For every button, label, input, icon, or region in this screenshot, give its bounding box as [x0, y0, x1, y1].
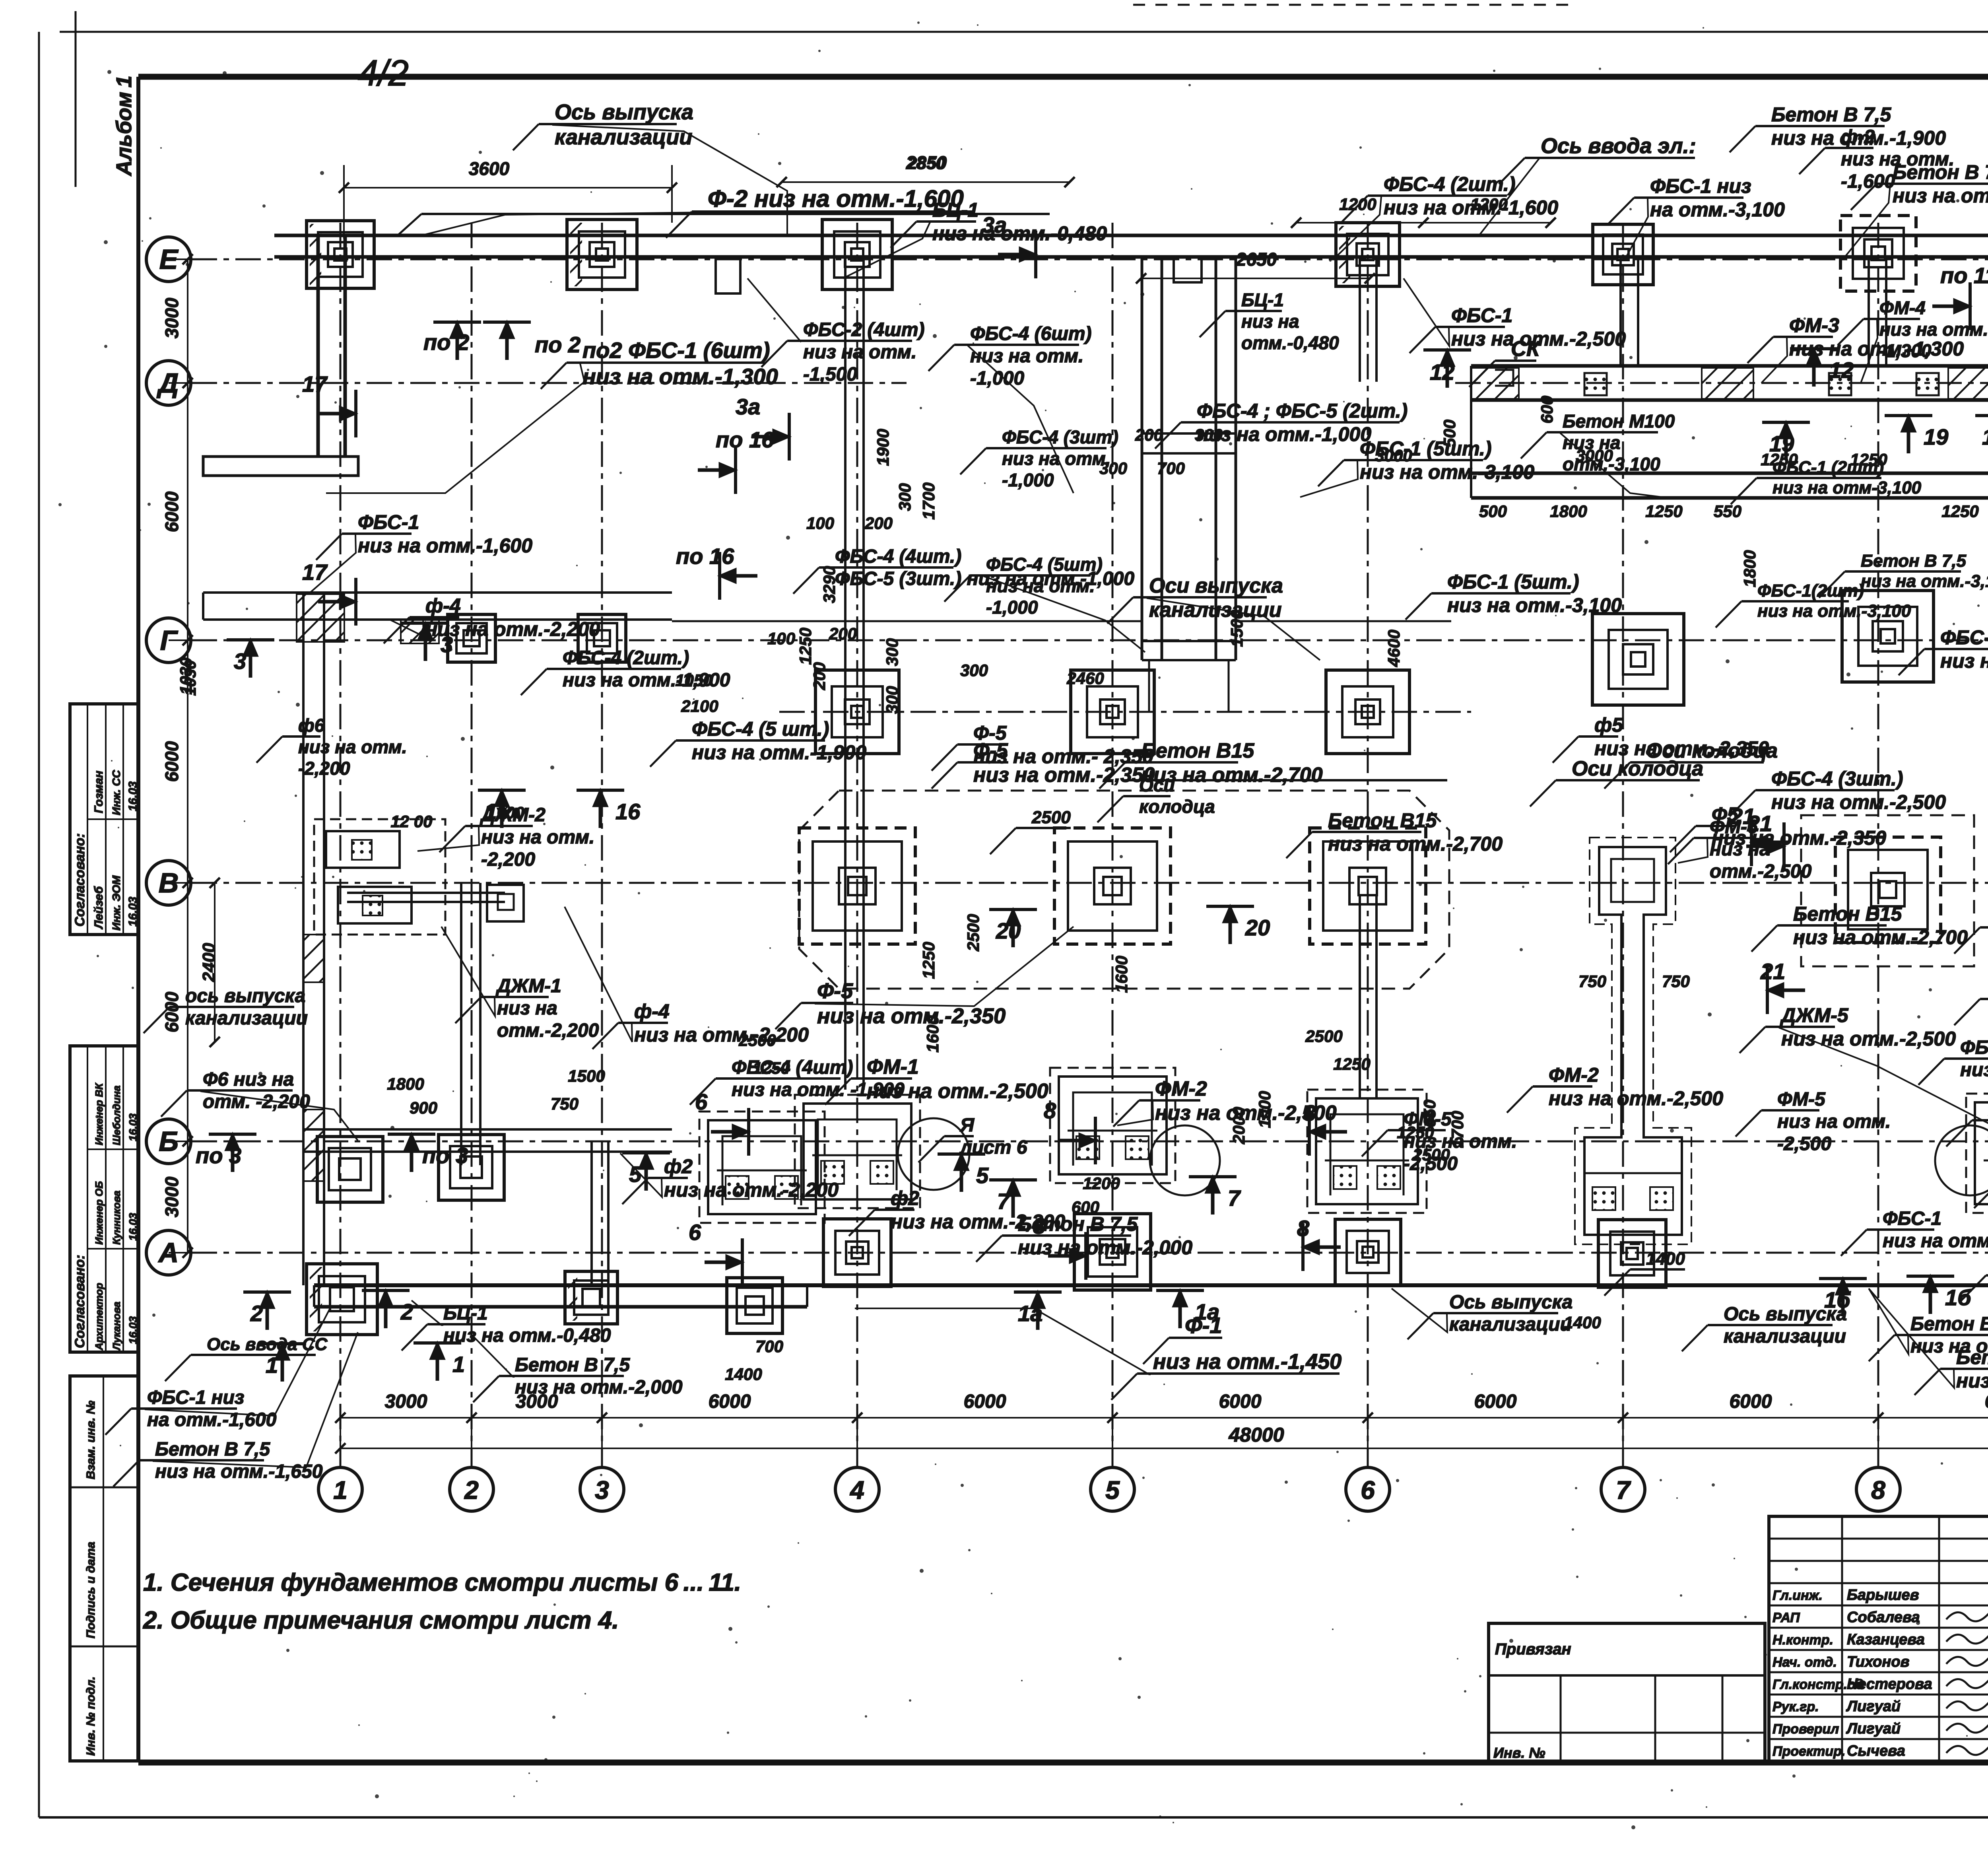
svg-text:1200: 1200 [487, 803, 524, 822]
svg-text:Н.контр.: Н.контр. [1773, 1632, 1833, 1648]
row axis circle Б [146, 1119, 191, 1164]
label ФБС-1 [1404, 278, 1626, 353]
svg-text:600: 600 [1072, 1198, 1099, 1216]
svg-text:канализации: канализации [185, 1008, 308, 1029]
label ФБС-4 (4шт.) [793, 546, 1134, 594]
svg-text:6000: 6000 [1985, 1391, 1988, 1412]
svg-text:Ф6 низ на: Ф6 низ на [203, 1069, 294, 1090]
svg-text:2500: 2500 [964, 914, 982, 951]
svg-text:1050: 1050 [675, 671, 712, 690]
svg-text:Ось выпуска: Ось выпуска [1724, 1304, 1847, 1325]
svg-text:ФБС-1(2шт): ФБС-1(2шт) [1757, 581, 1864, 600]
slab Бетон В15 dashed outline right [1801, 815, 1974, 966]
row axis line Е [192, 258, 1988, 260]
svg-text:Инженер ВК: Инженер ВК [93, 1082, 105, 1145]
svg-text:16.03: 16.03 [127, 1113, 139, 1141]
svg-text:16.03: 16.03 [127, 1213, 139, 1241]
svg-text:19: 19 [1924, 424, 1948, 449]
svg-text:Гозман: Гозман [92, 771, 105, 813]
svg-text:ФБС-4 (3шт): ФБС-4 (3шт) [1002, 427, 1118, 447]
svg-text:Бетон В15: Бетон В15 [1793, 903, 1903, 925]
foundation Ф-1 at А/7 [1598, 1220, 1666, 1287]
svg-text:1700: 1700 [919, 482, 938, 519]
hatch pieces on М100 band [1471, 368, 1519, 399]
svg-text:низ на отм.-0,480: низ на отм.-0,480 [443, 1325, 611, 1346]
svg-text:Ось выпуска: Ось выпуска [1449, 1292, 1573, 1313]
column axis line 2 [471, 223, 473, 1467]
label ФБС-4 (2шт.) [1336, 173, 1558, 257]
svg-text:300: 300 [1099, 459, 1127, 478]
label ФБС-4 (3шт) [960, 427, 1118, 490]
svg-text:по 16: по 16 [716, 427, 774, 452]
svg-text:1200: 1200 [1339, 195, 1376, 214]
svg-text:1800: 1800 [1550, 502, 1587, 521]
svg-text:низ на отм.-2,500: низ на отм.-2,500 [1771, 791, 1946, 813]
label ФБС-4 (6шт) [928, 323, 1092, 493]
svg-text:Ф-2 низ на отм.-1,600: Ф-2 низ на отм.-1,600 [708, 185, 964, 212]
column axis line 3 [601, 223, 603, 1467]
svg-text:Бетон В 7,5: Бетон В 7,5 [1861, 551, 1967, 571]
svg-text:6000: 6000 [1474, 1391, 1517, 1412]
svg-text:ФБС-4 (2шт.): ФБС-4 (2шт.) [563, 647, 689, 668]
svg-text:ФМ-1: ФМ-1 [867, 1055, 919, 1079]
label ФБ [1954, 977, 1988, 1025]
svg-text:ФБС-4 (4шт.): ФБС-4 (4шт.) [1960, 1037, 1988, 1058]
foundation Ф-2 at Е/7 [1593, 224, 1653, 285]
svg-text:Бетон В 7,5: Бетон В 7,5 [1771, 103, 1891, 126]
wall column 2 vertical В-Б [461, 883, 480, 1165]
svg-text:1250: 1250 [919, 942, 938, 979]
svg-text:Шеболдина: Шеболдина [111, 1085, 122, 1145]
svg-text:ось выпуска: ось выпуска [185, 985, 305, 1007]
label ФБС-4 (3шт.) [1730, 768, 1946, 816]
svg-text:3290: 3290 [820, 566, 839, 603]
svg-text:низ на отм.: низ на отм. [1002, 448, 1110, 469]
label Ось выпуска [1392, 1288, 1573, 1339]
svg-text:2460: 2460 [1066, 669, 1104, 688]
svg-text:200: 200 [810, 662, 829, 690]
svg-text:ФБС-4 (4шт.): ФБС-4 (4шт.) [835, 546, 961, 567]
svg-text:низ на отм.: низ на отм. [1777, 1111, 1891, 1132]
svg-text:Ось выпуска: Ось выпуска [555, 100, 693, 124]
svg-text:Ф-1: Ф-1 [1185, 1313, 1222, 1338]
label ФМ-3 [1747, 314, 1964, 383]
svg-text:100: 100 [767, 629, 795, 648]
svg-text:2400: 2400 [199, 943, 219, 982]
svg-text:Бетон В15: Бетон В15 [1141, 739, 1254, 762]
svg-text:низ на отм.-2,350: низ на отм.-2,350 [1594, 737, 1769, 760]
svg-text:1000: 1000 [1255, 1091, 1274, 1128]
svg-text:ф6: ф6 [298, 715, 325, 736]
svg-text:300: 300 [883, 686, 901, 714]
column axis circle 2 [450, 1467, 493, 1511]
foundation at Г/8 [1842, 591, 1934, 682]
svg-text:3000: 3000 [161, 1176, 182, 1217]
svg-text:ФБС-4 (2шт.): ФБС-4 (2шт.) [1384, 173, 1516, 195]
foundation Ф-5 at В/5 [1054, 828, 1171, 944]
svg-text:100: 100 [806, 514, 834, 532]
svg-text:ф-4: ф-4 [634, 1000, 670, 1022]
intermediate axis line Ф-5 row [779, 711, 1471, 713]
svg-text:Согласовано:: Согласовано: [72, 1255, 87, 1348]
foundation ФМ-1 at Б/8 [1966, 1094, 1988, 1213]
svg-text:1600: 1600 [1112, 956, 1131, 993]
svg-text:по2 ФБС-1 (6шт): по2 ФБС-1 (6шт) [582, 338, 770, 363]
svg-text:низ на отм.- 2,350: низ на отм.- 2,350 [973, 745, 1153, 768]
svg-text:низ на отм.-1,300: низ на отм.-1,300 [582, 364, 778, 389]
label Ось выпуска [1682, 1304, 1847, 1351]
row axis circle Е [146, 237, 191, 282]
svg-text:ФБС-1: ФБС-1 [358, 511, 419, 533]
label Ф-5 [932, 739, 1155, 789]
foundation Ф-5 at В/4 [799, 828, 915, 944]
column axis circle 7 [1601, 1467, 1645, 1511]
svg-text:по 3: по 3 [422, 1143, 468, 1168]
svg-text:15: 15 [1982, 424, 1988, 449]
svg-text:низ на отм.-2,350: низ на отм.-2,350 [1712, 827, 1886, 849]
label ФБС-4 (4шт.) [1918, 1037, 1988, 1085]
svg-text:2500: 2500 [1412, 1145, 1450, 1164]
svg-text:600: 600 [1538, 396, 1556, 424]
svg-text:Инж. СС: Инж. СС [110, 770, 122, 815]
label ПР1 (2шт.) [1960, 1255, 1988, 1315]
svg-text:4: 4 [849, 1476, 864, 1504]
label ФБС-1 [1841, 1208, 1988, 1256]
label ФБС-1 (5шт.) [1406, 571, 1622, 620]
svg-text:1500: 1500 [568, 1067, 605, 1085]
svg-text:Привязан: Привязан [1495, 1640, 1571, 1658]
label ФБС-1 низ [1608, 175, 1785, 257]
svg-text:6000: 6000 [1219, 1391, 1262, 1412]
svg-text:низ на отм.-3,100: низ на отм.-3,100 [1861, 571, 1988, 591]
label ФМ-2 [1113, 1077, 1337, 1127]
svg-text:ФМ-5: ФМ-5 [1777, 1089, 1826, 1110]
svg-text:-2,200: -2,200 [481, 849, 535, 870]
svg-text:1030: 1030 [177, 657, 195, 694]
ДЖМ-1 ДЖМ-2 cluster at В/1-2 [314, 819, 524, 935]
label ФМ-1 [825, 1055, 1048, 1105]
svg-text:300: 300 [883, 638, 901, 666]
svg-text:Архитектор: Архитектор [93, 1283, 105, 1351]
svg-text:2: 2 [400, 1299, 413, 1324]
svg-text:низ на отм.-2,200: низ на отм.-2,200 [425, 618, 600, 640]
label Ф-5 [932, 722, 1153, 771]
svg-text:1400: 1400 [725, 1365, 762, 1384]
svg-text:700: 700 [755, 1337, 783, 1356]
label Ф-2 низ на отм.-1,600 [421, 185, 974, 238]
svg-text:Нестерова: Нестерова [1847, 1676, 1932, 1693]
left stamp table inventory [70, 1376, 138, 1761]
svg-text:ФБС-4 (3шт.): ФБС-4 (3шт.) [1771, 768, 1903, 790]
svg-text:Рук.гр.: Рук.гр. [1773, 1699, 1819, 1714]
slab Бетон В15 dashed outline left [799, 791, 1449, 989]
svg-text:низ на отм-3,100: низ на отм-3,100 [1773, 478, 1922, 497]
svg-text:низ на отм.-2,700: низ на отм.-2,700 [1793, 926, 1968, 948]
label низ на отм.-1,450 [855, 1308, 1342, 1400]
svg-text:низ на отм.-2,000: низ на отм.-2,000 [1018, 1236, 1192, 1259]
label 1400 [1604, 1249, 1685, 1296]
svg-text:на отм.-3,100: на отм.-3,100 [1650, 198, 1785, 221]
label Бетон В15 [1286, 809, 1503, 858]
svg-text:750: 750 [551, 1094, 579, 1113]
svg-text:550: 550 [1714, 502, 1741, 521]
label Ось выпуска [513, 100, 787, 235]
foundation at Г/3 [578, 614, 626, 662]
label ФМ-2 [1507, 1064, 1723, 1113]
svg-text:5: 5 [1105, 1476, 1120, 1504]
label ось выпуска [144, 985, 308, 1033]
label ФМ-4 [1838, 297, 1988, 383]
label Бетон В 7,5 [1974, 1160, 1988, 1208]
svg-text:200: 200 [864, 514, 893, 532]
svg-text:Оси выпуска: Оси выпуска [1149, 574, 1283, 597]
svg-text:ФМ-3: ФМ-3 [1789, 314, 1839, 336]
foundation Ф-2 at Е/8 [1840, 216, 1916, 291]
svg-text:лист 6: лист 6 [959, 1137, 1027, 1158]
label ф-4 [565, 907, 809, 1049]
label ФБС-1(2шт) [1716, 581, 1911, 628]
label Бетон В 7,5 [1946, 1099, 1988, 1147]
svg-text:3000: 3000 [1375, 446, 1412, 465]
svg-text:2500: 2500 [1031, 808, 1071, 827]
svg-text:ФБС-5 (3шт.) низ на отм.-1,00: ФБС-5 (3шт.) низ на отм.-1,000 [835, 568, 1134, 589]
foundation Ф-1 at А/5 [1074, 1214, 1151, 1290]
svg-text:низ на отм.-1,450: низ на отм.-1,450 [1153, 1350, 1342, 1374]
svg-text:Проектир.: Проектир. [1773, 1744, 1845, 1759]
row axis circle Д [146, 361, 191, 405]
svg-text:Проверил: Проверил [1773, 1722, 1839, 1737]
svg-text:ФМ-2: ФМ-2 [1155, 1077, 1207, 1100]
label ФБС-4 (4шт) [690, 1057, 905, 1105]
svg-text:-1,600: -1,600 [1841, 171, 1895, 192]
left exterior wall vertical [303, 593, 324, 1285]
svg-text:-1,000: -1,000 [1002, 470, 1054, 490]
svg-text:Лейзеб: Лейзеб [92, 886, 105, 929]
svg-text:1700: 1700 [1448, 1111, 1467, 1148]
svg-text:3000: 3000 [1576, 446, 1613, 465]
svg-text:17: 17 [302, 371, 328, 396]
label ф5 [1553, 714, 1769, 763]
svg-text:12 00: 12 00 [390, 812, 432, 831]
svg-text:Луканова: Луканова [111, 1302, 122, 1351]
svg-text:1250: 1250 [1397, 1123, 1434, 1142]
svg-text:1250: 1250 [1333, 1055, 1370, 1073]
svg-text:Бетон В 7,5: Бетон В 7,5 [155, 1439, 270, 1460]
label СК [1469, 337, 1541, 387]
svg-text:Барышев: Барышев [1847, 1587, 1919, 1603]
svg-text:низ на отм.-3,100: низ на отм.-3,100 [1940, 650, 1988, 672]
svg-text:по 2: по 2 [535, 332, 580, 357]
svg-text:1400: 1400 [1564, 1313, 1601, 1332]
foundation at Б/2 [439, 1135, 504, 1200]
svg-text:БЦ-1: БЦ-1 [443, 1303, 488, 1324]
svg-text:ФБС-1 (5шт.): ФБС-1 (5шт.) [1447, 571, 1579, 593]
foundation Ф5 at В/8 [1835, 837, 1941, 942]
foundation ФМ-1 at Б/4 [795, 1095, 920, 1208]
label Ось ввода эл.: [1479, 134, 1696, 235]
svg-text:СК: СК [1511, 337, 1541, 361]
foundation Ф-1 at А/4 [823, 1219, 891, 1286]
row axis line А [192, 1252, 1988, 1254]
label ДЖМ-5 [1739, 1004, 1988, 1133]
foundation ФМ-6 ДЖМ-5 at column 7 [1575, 838, 1691, 1244]
row Г beam extension lines [672, 620, 1142, 622]
svg-text:700: 700 [1157, 459, 1185, 478]
svg-text:низ на отм.-1,000: низ на отм.-1,000 [1197, 423, 1371, 445]
svg-text:6: 6 [689, 1220, 701, 1245]
svg-text:1600: 1600 [923, 1015, 942, 1052]
svg-text:отм.-0,480: отм.-0,480 [1241, 332, 1339, 353]
foundation Ф-5 upper at 5 [1071, 670, 1154, 754]
svg-text:20: 20 [1245, 915, 1270, 940]
svg-text:2650: 2650 [1236, 249, 1277, 270]
foundation Ф-2 at Е/4 [822, 220, 892, 290]
svg-text:низ на отм.-2,000: низ на отм.-2,000 [515, 1377, 683, 1398]
CK bracket mid [1495, 370, 1513, 386]
row axis line Б [192, 1141, 1988, 1143]
svg-text:1250: 1250 [1941, 502, 1978, 521]
svg-text:низ на отм.-3,100: низ на отм.-3,100 [1757, 601, 1911, 621]
svg-text:Собалева: Собалева [1847, 1609, 1920, 1626]
svg-text:ф2: ф2 [664, 1155, 693, 1178]
label ДЖМ-1 [441, 927, 599, 1041]
long leader underline for Ф-2 label [421, 213, 1050, 215]
label Я [918, 1115, 1027, 1162]
svg-text:низ на отм.-3,700: низ на отм.-3,700 [1883, 1230, 1988, 1251]
svg-text:1250: 1250 [1645, 502, 1682, 521]
svg-text:Я: Я [959, 1115, 975, 1136]
svg-text:Бетон М100: Бетон М100 [1563, 411, 1675, 431]
svg-text:6000: 6000 [709, 1391, 751, 1412]
row axis circle А [146, 1230, 191, 1275]
svg-text:низ на отм.: низ на отм. [1879, 319, 1988, 340]
svg-text:РАП: РАП [1773, 1610, 1800, 1625]
svg-text:Сычева: Сычева [1847, 1743, 1905, 1759]
column axis line 7 [1622, 223, 1624, 1467]
label Оси выпуска [1107, 574, 1320, 660]
svg-text:4/2: 4/2 [358, 53, 409, 93]
svg-text:Согласовано:: Согласовано: [72, 833, 87, 927]
long leader underline for Бетон В15 label [1125, 779, 1447, 781]
svg-text:Лигуай: Лигуай [1846, 1720, 1901, 1737]
svg-text:2500: 2500 [1305, 1027, 1342, 1045]
row axis circle Г [146, 618, 191, 663]
column axis circle 5 [1091, 1467, 1134, 1511]
svg-text:750: 750 [1662, 972, 1690, 991]
svg-text:ф-4: ф-4 [425, 595, 461, 617]
svg-text:500: 500 [1440, 420, 1459, 447]
svg-text:Инв. № подл.: Инв. № подл. [84, 1677, 97, 1756]
wall band row Г left [203, 593, 672, 643]
svg-text:Ось ввода эл.:: Ось ввода эл.: [1541, 134, 1696, 158]
svg-text:низ на отм.: низ на отм. [803, 342, 916, 363]
label ф-2 [1799, 126, 1954, 192]
foundation ФМ-1 at Б/3 [699, 1112, 825, 1223]
svg-text:-1,500: -1,500 [803, 364, 857, 385]
column axis line 6 [1367, 223, 1369, 1467]
svg-text:низ на отм.-2,350: низ на отм.-2,350 [817, 1004, 1006, 1028]
svg-text:1. Сечения фундаментов смотр: 1. Сечения фундаментов смотри листы 6 ..… [143, 1569, 741, 1596]
svg-text:6000: 6000 [964, 1391, 1006, 1412]
svg-text:2100: 2100 [681, 697, 718, 715]
label ФМ-5 [1736, 1089, 1891, 1154]
svg-text:ФБС-1 (15шт.): ФБС-1 (15шт.) [1940, 626, 1988, 649]
svg-text:ФМ-4: ФМ-4 [1879, 297, 1926, 318]
svg-text:низ на отм.-2,500: низ на отм.-2,500 [1549, 1087, 1723, 1110]
wall column 4 vertical [845, 257, 864, 1090]
svg-text:низ на отм.: низ на отм. [481, 827, 594, 848]
svg-text:4600: 4600 [1384, 630, 1403, 667]
label Ось ввода СС [165, 1335, 328, 1381]
svg-text:Ф-5: Ф-5 [973, 722, 1007, 744]
svg-text:16.03: 16.03 [127, 1316, 139, 1344]
bottom dimension chain 1 [335, 1391, 1988, 1467]
small dimension texts [177, 154, 1988, 1384]
column axis circle 3 [580, 1467, 624, 1511]
column base БЦ-1 near Е/5 [1174, 257, 1202, 282]
label ДЖМ-2 [417, 805, 594, 870]
svg-text:ФБС-2 (4шт): ФБС-2 (4шт) [803, 319, 925, 340]
svg-text:Бетон В15: Бетон В15 [1328, 809, 1437, 832]
svg-text:низ на отм.-3,700: низ на отм.-3,700 [1960, 1059, 1988, 1080]
svg-text:низ на отм.: низ на отм. [1841, 149, 1954, 170]
label Бетон В15 [1751, 903, 1968, 952]
top dimension 2850 [777, 152, 1075, 187]
foundation ФМ-5 at Б/6 [1307, 1090, 1427, 1213]
svg-text:900: 900 [410, 1098, 437, 1117]
svg-text:отм.-2,200: отм.-2,200 [497, 1020, 599, 1041]
dimension 2650 row E [1136, 249, 1375, 284]
row axis circle В [146, 861, 191, 905]
svg-text:500: 500 [1479, 502, 1507, 521]
svg-text:300: 300 [960, 661, 988, 680]
svg-text:низ на отм.-2,500: низ на отм.-2,500 [867, 1080, 1048, 1103]
foundation at Г/7 [1592, 614, 1684, 705]
section marks [196, 177, 1988, 1382]
svg-text:1250: 1250 [1761, 450, 1798, 469]
label Ф6 низ на [161, 1069, 358, 1141]
wall column 6 vertical В-Б [1360, 895, 1376, 1098]
svg-text:низ на отм.-2,200: низ на отм.-2,200 [664, 1179, 839, 1201]
svg-text:16: 16 [615, 799, 641, 824]
column axis line 4 [856, 223, 858, 1467]
svg-text:ФБС-1 низ: ФБС-1 низ [147, 1387, 244, 1408]
label Бетон В 7,5 [1730, 103, 1946, 152]
label ФБС-1 [310, 511, 532, 593]
row axis line В [192, 882, 1988, 884]
wall column 3 vertical Б-А [592, 1141, 608, 1285]
bottom dimension chain 2 (48000) [335, 1424, 1988, 1454]
svg-text:ФБС-1: ФБС-1 [1883, 1208, 1941, 1229]
wall row Б left segment [303, 1129, 672, 1152]
label Бетон В 7,5 [976, 1213, 1192, 1262]
svg-text:1900: 1900 [874, 429, 892, 466]
label ФБС-4 ; ФБС-5 (2шт.) [1155, 400, 1408, 449]
svg-text:Нач. отд.: Нач. отд. [1773, 1655, 1837, 1670]
label ФБС-4 (5шт) [944, 554, 1145, 652]
svg-text:1800: 1800 [1740, 550, 1759, 587]
foundation Ф-2 at Е/3 [567, 220, 637, 290]
svg-text:21: 21 [1760, 959, 1785, 984]
svg-text:7: 7 [1616, 1476, 1631, 1504]
building bottom edge [314, 1285, 1988, 1307]
label ФМ-6 [1668, 816, 1812, 882]
left dimension chain [161, 254, 220, 1258]
label ФБС-1 низ [105, 1308, 330, 1435]
svg-text:5: 5 [976, 1163, 989, 1188]
top dimension 3600 [339, 158, 677, 239]
svg-text:6000: 6000 [1730, 1391, 1772, 1412]
